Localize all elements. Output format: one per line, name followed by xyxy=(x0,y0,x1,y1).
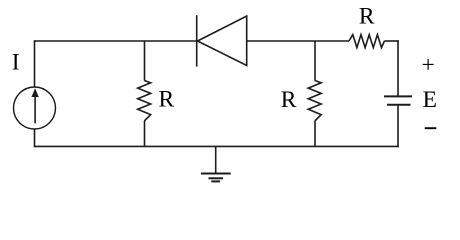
resistor R shunt right: top stub xyxy=(314,41,316,81)
wire left vertical upper xyxy=(34,40,36,87)
resistor R shunt left: top stub xyxy=(144,41,146,81)
svg-text:R: R xyxy=(359,3,375,29)
svg-text:+: + xyxy=(421,52,434,78)
svg-text:I: I xyxy=(12,49,20,75)
svg-text:E: E xyxy=(423,87,437,113)
label minus xyxy=(425,127,437,129)
svg-text:R: R xyxy=(281,87,297,113)
wire right vertical upper xyxy=(397,40,399,96)
resistor R series (top right) xyxy=(349,35,384,48)
battery source E bottom plate xyxy=(387,104,411,106)
resistor R shunt left zigzag xyxy=(138,81,151,122)
svg-text:R: R xyxy=(158,86,174,112)
diode D1 xyxy=(197,15,247,66)
resistor R shunt right zigzag xyxy=(308,81,321,122)
wire bottom xyxy=(35,145,399,147)
current source I1 xyxy=(14,87,56,129)
wire right vertical lower xyxy=(397,105,399,148)
resistor R shunt right: bottom stub xyxy=(314,121,316,146)
resistor R shunt left: bottom stub xyxy=(144,121,146,146)
wire diode to resistor xyxy=(247,40,349,42)
wire top left segment xyxy=(35,40,197,42)
ground xyxy=(201,146,231,181)
wire left vertical lower xyxy=(34,129,36,147)
wire resistor to corner xyxy=(384,40,398,42)
battery source E top plate xyxy=(384,95,412,97)
